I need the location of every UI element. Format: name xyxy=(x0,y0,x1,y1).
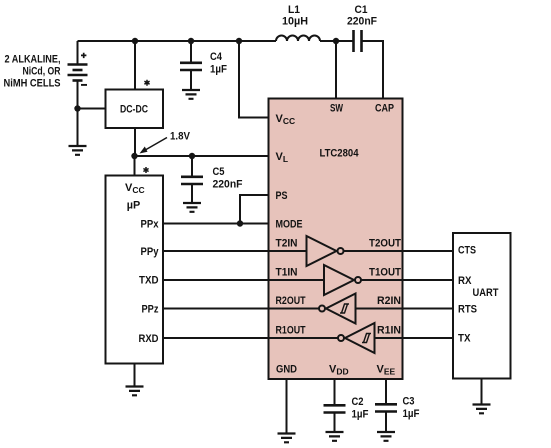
IC U1 LTC2804 body xyxy=(269,99,403,380)
wire battery top lead xyxy=(77,41,79,64)
wire R1OUT to RXD xyxy=(163,337,338,339)
junction battery/DC-DC node xyxy=(74,105,80,111)
driver T1 (inverting buffer) xyxy=(324,265,361,295)
svg-text:PPz: PPz xyxy=(142,304,159,316)
wire C5 top lead xyxy=(191,156,193,176)
wire C3 to ground xyxy=(385,413,387,432)
svg-text:R2IN: R2IN xyxy=(377,295,401,307)
wire VDD pin to C2 xyxy=(334,379,336,405)
junction MODE/PS xyxy=(237,220,243,226)
driver T2 (inverting buffer) xyxy=(307,236,344,266)
svg-text:C1: C1 xyxy=(355,4,368,16)
capacitor C1 xyxy=(347,4,377,52)
svg-text:RX: RX xyxy=(458,275,472,287)
ground (UART) xyxy=(473,405,491,414)
svg-text:PPy: PPy xyxy=(141,246,160,258)
wire uP ground lead xyxy=(134,364,136,387)
node 1.8V with arrow xyxy=(140,131,191,154)
ground (C5) xyxy=(183,203,201,212)
wire C2 to ground xyxy=(334,413,336,432)
junction top rail at VCC drop xyxy=(236,38,242,44)
svg-text:220nF: 220nF xyxy=(347,16,377,28)
junction 1.8V node xyxy=(131,153,137,159)
capacitor C3 xyxy=(375,396,420,421)
wire VEE pin to C3 xyxy=(385,379,387,404)
ground (battery) xyxy=(69,146,87,155)
svg-text:2 ALKALINE,: 2 ALKALINE, xyxy=(5,54,61,66)
svg-text:T1IN: T1IN xyxy=(276,267,298,279)
wire top rail to LTC2804 VCC pin xyxy=(239,41,269,118)
svg-text:C3: C3 xyxy=(403,396,415,408)
wire T1OUT to RX xyxy=(361,279,453,281)
wire T2OUT to CTS xyxy=(344,250,454,252)
wire SW drop xyxy=(335,41,337,99)
svg-text:CAP: CAP xyxy=(375,103,394,115)
ground (C2) xyxy=(326,432,344,441)
svg-text:T2IN: T2IN xyxy=(276,238,298,250)
junction top rail at C4 xyxy=(188,38,194,44)
wire R1IN to TX xyxy=(375,337,454,339)
svg-text:C2: C2 xyxy=(352,396,364,408)
svg-text:DC-DC: DC-DC xyxy=(120,104,148,116)
svg-text:T2OUT: T2OUT xyxy=(369,238,401,250)
wire battery node to DC-DC input xyxy=(78,108,106,110)
svg-text:TXD: TXD xyxy=(139,275,159,287)
wire TXD to T1IN xyxy=(163,279,324,281)
wire C4 top lead xyxy=(190,41,192,62)
wire 1.8V node down to uP VCC xyxy=(134,156,136,176)
wire C5 bottom lead xyxy=(191,184,193,203)
svg-text:R1IN: R1IN xyxy=(377,325,401,337)
ground (uP) xyxy=(126,387,144,396)
svg-text:1µF: 1µF xyxy=(403,408,420,420)
battery label xyxy=(4,54,61,90)
svg-text:R2OUT: R2OUT xyxy=(276,295,306,307)
svg-text:TX: TX xyxy=(458,333,471,345)
wire PS branch xyxy=(240,195,269,224)
DC-DC converter block xyxy=(106,90,164,129)
svg-text:MODE: MODE xyxy=(276,219,303,231)
svg-text:T1OUT: T1OUT xyxy=(369,267,401,279)
svg-text:RXD: RXD xyxy=(139,333,159,345)
capacitor C4 xyxy=(180,51,227,76)
wire GND pin lead xyxy=(286,379,288,433)
ground (GND pin) xyxy=(278,434,296,443)
svg-text:NiMH CELLS: NiMH CELLS xyxy=(4,78,61,90)
inductor L1 xyxy=(276,4,320,41)
svg-text:10µH: 10µH xyxy=(282,16,308,28)
svg-text:220nF: 220nF xyxy=(213,179,243,191)
svg-text:PPx: PPx xyxy=(141,219,160,231)
svg-text:L1: L1 xyxy=(288,4,300,16)
svg-text:UART: UART xyxy=(473,287,499,299)
junction top rail at SW xyxy=(333,38,339,44)
battery B1 (2 cells) xyxy=(68,53,88,85)
wire R2IN to RTS xyxy=(356,308,454,310)
wire DC-DC output to 1.8V node xyxy=(134,128,136,156)
svg-text:RTS: RTS xyxy=(458,304,477,316)
svg-text:PS: PS xyxy=(276,190,288,202)
ground (C4) xyxy=(182,90,200,99)
receiver R2 (inverting schmitt buffer) xyxy=(319,294,356,324)
svg-text:C5: C5 xyxy=(213,166,225,178)
svg-text:1µF: 1µF xyxy=(352,409,369,421)
wire R2OUT to PPz xyxy=(163,308,319,310)
junction top rail at DC-DC xyxy=(132,38,138,44)
wire C1 right plate to CAP pin xyxy=(362,41,384,99)
capacitor C5 xyxy=(181,166,243,191)
UART block xyxy=(453,233,511,379)
svg-text:CTS: CTS xyxy=(458,245,476,257)
wire PPx to MODE xyxy=(163,223,269,225)
wire top rail to DC-DC top xyxy=(134,41,136,90)
wire C4 bottom lead xyxy=(190,71,192,90)
wire battery bottom lead to ground xyxy=(77,81,79,146)
wire UART ground lead xyxy=(481,379,483,405)
capacitor C2 xyxy=(324,396,369,421)
ground (C3) xyxy=(377,432,395,441)
receiver R1 (inverting schmitt buffer) xyxy=(338,323,375,353)
wire inductor to C1 left plate with SW tap xyxy=(320,40,354,42)
wire 1.8V rail to VL pin xyxy=(135,155,269,157)
svg-text:1µF: 1µF xyxy=(210,64,227,76)
asterisk above uP xyxy=(143,167,148,173)
svg-text:C4: C4 xyxy=(210,51,223,63)
wire PPy to T2IN xyxy=(163,250,307,252)
svg-text:1.8V: 1.8V xyxy=(170,131,191,143)
junction 1.8V at C5 xyxy=(189,153,195,159)
svg-text:µP: µP xyxy=(127,200,141,212)
svg-text:NiCd, OR: NiCd, OR xyxy=(23,66,61,78)
svg-text:GND: GND xyxy=(276,364,297,376)
svg-text:LTC2804: LTC2804 xyxy=(320,148,360,160)
svg-text:SW: SW xyxy=(330,103,343,115)
microprocessor block uP xyxy=(106,176,164,364)
asterisk above DC-DC xyxy=(144,80,149,86)
svg-text:R1OUT: R1OUT xyxy=(276,325,306,337)
wire top rail from battery to inductor xyxy=(78,40,277,42)
